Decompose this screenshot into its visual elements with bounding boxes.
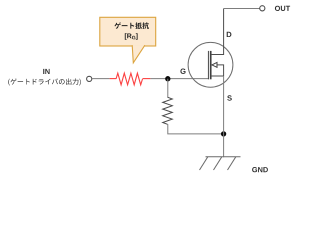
- wire pulldown resistor to source net: [168, 124, 224, 134]
- label OUT: [275, 6, 290, 11]
- label D: [227, 32, 232, 37]
- wire IN to gate resistor: [92, 78, 110, 80]
- callout text line2 [RG]: [125, 33, 138, 40]
- resistor pulldown (gate-source): [163, 97, 173, 124]
- label IN: [43, 69, 49, 74]
- callout text line1 (gate resistance): [114, 22, 149, 29]
- mosfet Q1 circle: [188, 42, 233, 87]
- resistor RG (gate resistor, red): [110, 78, 116, 80]
- node IN terminal: [87, 76, 92, 81]
- wire resistor to gate: [150, 78, 209, 80]
- label gate driver output (japanese): [8, 78, 80, 85]
- mosfet gate bar: [207, 51, 209, 79]
- mosfet channel bar: [210, 51, 212, 79]
- callout tail: [132, 45, 145, 63]
- label G: [180, 69, 185, 74]
- node S junction dot: [221, 131, 226, 136]
- mosfet drain tap: [211, 9, 224, 55]
- label S: [227, 95, 232, 100]
- wire drain top rail to OUT: [224, 8, 260, 10]
- ground: [200, 157, 241, 170]
- mosfet body arrow line: [216, 65, 223, 76]
- node OUT terminal: [260, 6, 265, 11]
- mosfet body arrowhead: [212, 62, 217, 67]
- node G junction dot: [165, 76, 170, 81]
- label GND: [252, 167, 268, 172]
- callout box RG: [100, 17, 156, 46]
- wire source down to ground: [223, 76, 225, 157]
- mosfet source tap: [211, 75, 224, 77]
- wire node to pulldown resistor: [167, 79, 169, 98]
